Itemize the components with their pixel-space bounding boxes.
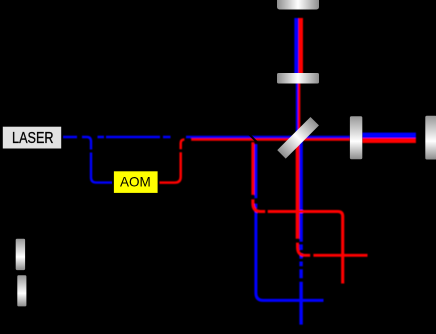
lens L2 right edge [425, 116, 436, 160]
wire: thick red beam above waveplate [298, 18, 303, 74]
svg-text:AOM: AOM [120, 174, 151, 189]
wire: blue pickoff down to AOM [82, 137, 113, 183]
wire: red horizontal at y=211 with corner down right [253, 199, 343, 283]
lens L1 [350, 116, 362, 159]
wire: red horizontal at y=255 [298, 243, 368, 256]
mirror small lower left [17, 275, 26, 306]
wire: branch pair dropping at x=253 red part [251, 142, 254, 195]
node: black diagonal gap at branch corner [248, 133, 258, 143]
wire: thin red beam waveplate to beamsplitter [298, 83, 300, 140]
svg-text:LASER: LASER [12, 130, 54, 147]
wire: dashed blue beam from laser [63, 136, 350, 139]
mirror M1 top [277, 0, 319, 10]
waveplate WP [277, 73, 319, 84]
wire: red output of AOM up to main line [159, 140, 185, 183]
wire: branch pair dropping at x=253 blue part [256, 144, 324, 300]
beamsplitter BS [277, 117, 319, 159]
wire: thick red beam right of lens [362, 138, 416, 143]
mirror small upper left [16, 239, 25, 270]
wire: thick blue beam right of lens [362, 133, 416, 138]
box LASER [2, 126, 62, 149]
wire: center down pair red part below beamsplitter [296, 137, 300, 239]
wire: thin blue beam waveplate to beamsplitter [296, 83, 298, 140]
wire: thick blue beam above waveplate [294, 18, 298, 74]
wire: red beam along main line to beamsplitter [191, 138, 350, 141]
box AOM [113, 170, 159, 193]
wire: center down pair blue part below beamsplitter [299, 137, 302, 325]
